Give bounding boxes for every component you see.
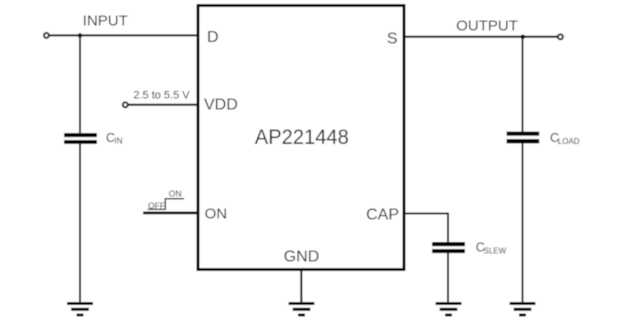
- svg-text:2.5 to 5.5 V: 2.5 to 5.5 V: [133, 89, 190, 101]
- svg-text:SLEW: SLEW: [484, 247, 507, 256]
- svg-text:ON: ON: [205, 206, 228, 223]
- svg-text:GND: GND: [284, 248, 320, 265]
- svg-text:INPUT: INPUT: [83, 13, 128, 30]
- svg-text:IN: IN: [115, 137, 123, 146]
- svg-text:VDD: VDD: [204, 97, 238, 114]
- svg-text:S: S: [387, 31, 398, 48]
- svg-text:ON: ON: [169, 188, 182, 198]
- svg-text:AP221448: AP221448: [255, 125, 349, 149]
- svg-text:D: D: [207, 29, 219, 46]
- svg-text:OUTPUT: OUTPUT: [456, 18, 518, 35]
- svg-text:LOAD: LOAD: [558, 137, 580, 146]
- svg-text:OFF: OFF: [148, 201, 165, 211]
- svg-text:CAP: CAP: [366, 207, 399, 224]
